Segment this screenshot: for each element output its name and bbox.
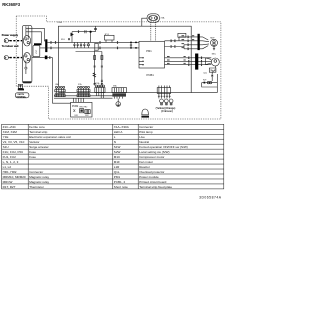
terminal oval upper bbox=[23, 36, 30, 46]
svg-text:Forced operation ON/OFF sw (S/: Forced operation ON/OFF sw (S/W) bbox=[139, 145, 188, 149]
wire into PCB lower bbox=[40, 47, 59, 49]
capacitor C3 bbox=[77, 42, 79, 47]
terminal 2 bbox=[27, 58, 29, 60]
power supply plug bbox=[4, 39, 8, 43]
svg-text:Electronic expansion valve coi: Electronic expansion valve coil bbox=[29, 135, 71, 139]
svg-text:Terminal strip fixed plate: Terminal strip fixed plate bbox=[139, 185, 172, 189]
svg-text:F1U: F1U bbox=[61, 39, 65, 41]
earth bell symbol bbox=[142, 109, 149, 115]
fan wire connector arcs bbox=[171, 40, 176, 48]
solenoid wire ticks bbox=[158, 95, 171, 97]
fuse F1U black body bbox=[34, 43, 42, 45]
connector pair below Q1L bbox=[211, 72, 213, 81]
PM1 power module bbox=[139, 41, 165, 68]
svg-text:HR1, HR2: HR1, HR2 bbox=[3, 170, 17, 174]
tick on right feed bbox=[101, 80, 103, 81]
fan wire tag smudges bbox=[182, 35, 195, 48]
bottom bus wire bbox=[58, 87, 217, 93]
service connector oval on casing top bbox=[147, 14, 165, 22]
varistor V2 bbox=[87, 42, 89, 47]
svg-text:Q1L: Q1L bbox=[203, 72, 208, 74]
svg-text:Local setting sw (S/W): Local setting sw (S/W) bbox=[139, 150, 169, 154]
earth symbol under X8A bbox=[117, 99, 119, 102]
expansion valve coil b bbox=[164, 99, 168, 103]
svg-text:R1T, R2T: R1T, R2T bbox=[3, 185, 16, 189]
capacitor to top edge bbox=[94, 28, 97, 29]
svg-text:TERMINAL: TERMINAL bbox=[16, 95, 27, 98]
PCB2 box bbox=[71, 102, 92, 117]
terminal strip label box bbox=[23, 81, 31, 83]
svg-text:MRCW: MRCW bbox=[3, 180, 13, 184]
connector pair arcs lower bbox=[51, 47, 52, 49]
svg-text:Terminal strip: Terminal strip bbox=[29, 130, 47, 134]
compressor wires bbox=[165, 58, 212, 65]
svg-text:MRM10, MRM20: MRM10, MRM20 bbox=[3, 175, 26, 179]
capacitor C6 bbox=[83, 42, 85, 47]
svg-text:Magnetic relay: Magnetic relay bbox=[29, 175, 49, 179]
terminal L bbox=[25, 38, 27, 40]
svg-text:Fan motor: Fan motor bbox=[139, 160, 153, 164]
earth terminal icon bbox=[18, 84, 22, 88]
relay box fan bbox=[178, 33, 186, 37]
node dot D1 bbox=[90, 31, 92, 33]
svg-text:Surge arrester: Surge arrester bbox=[29, 145, 48, 149]
indoor unit cable bbox=[10, 57, 23, 59]
power supply cable bbox=[10, 40, 23, 42]
connector arcs feed bbox=[94, 83, 103, 84]
top internal wire bbox=[72, 26, 96, 42]
svg-text:PCB2: PCB2 bbox=[72, 105, 79, 108]
svg-text:M1F: M1F bbox=[114, 160, 120, 164]
svg-text:HR1 HR2: HR1 HR2 bbox=[80, 107, 88, 109]
svg-text:Short note: Short note bbox=[114, 185, 128, 189]
solenoid connector Y1E bbox=[157, 86, 171, 94]
svg-text:F1U, F4U, F5U: F1U, F4U, F5U bbox=[3, 150, 24, 154]
svg-text:(Crimson): (Crimson) bbox=[161, 110, 172, 113]
connector X11A bbox=[95, 85, 105, 98]
comp wire tag smudges bbox=[167, 56, 186, 64]
indoor unit plug bbox=[4, 56, 8, 60]
terminal oval lower bbox=[23, 53, 30, 63]
svg-text:X11A: X11A bbox=[95, 82, 100, 85]
earth note box bbox=[15, 93, 29, 98]
svg-text:Varistor: Varistor bbox=[29, 140, 39, 144]
svg-text:M1C: M1C bbox=[114, 155, 121, 159]
outdoor unit casing dashed outline bbox=[16, 16, 221, 119]
capacitor C4 bbox=[80, 42, 82, 47]
svg-text:Connector: Connector bbox=[29, 170, 43, 174]
switch S1W bbox=[73, 109, 75, 112]
svg-text:M1C: M1C bbox=[212, 53, 217, 55]
fan motor M1F bbox=[203, 37, 218, 50]
svg-text:Connector: Connector bbox=[139, 125, 153, 129]
fuse F3U bbox=[101, 56, 103, 60]
connector arcs rail bbox=[100, 41, 119, 49]
terminal strip top stubs bbox=[25, 26, 28, 74]
switch S3W bbox=[85, 110, 90, 114]
lower wire a bbox=[54, 95, 113, 97]
service connector wires bbox=[151, 22, 156, 41]
fan wire arcs at edge bbox=[188, 36, 189, 50]
relay RY1 bbox=[105, 35, 115, 40]
svg-text:Live: Live bbox=[139, 135, 145, 139]
PM1 left edge pins bbox=[139, 58, 142, 65]
fan motor wires bbox=[165, 37, 203, 49]
svg-text:DR2: DR2 bbox=[85, 115, 89, 117]
main rail upper bbox=[58, 41, 139, 43]
diode D1 bbox=[71, 33, 73, 36]
svg-text:S2W: S2W bbox=[114, 150, 121, 154]
svg-text:Power module: Power module bbox=[139, 175, 159, 179]
terminal N bbox=[27, 41, 29, 43]
connector arcs signal bbox=[49, 56, 50, 58]
third rail wire bbox=[76, 51, 102, 53]
svg-text:X7A: X7A bbox=[78, 83, 82, 86]
svg-text:L1, L2: L1, L2 bbox=[3, 165, 12, 169]
ferrite core Z5C bbox=[195, 54, 198, 70]
svg-text:Neutral: Neutral bbox=[139, 140, 149, 144]
capacitor C2 bbox=[73, 42, 75, 47]
svg-text:N: N bbox=[114, 140, 116, 144]
svg-text:RK360F3: RK360F3 bbox=[2, 2, 21, 7]
connector arcs top wire bbox=[78, 31, 79, 33]
svg-text:LED A: LED A bbox=[114, 130, 124, 134]
svg-text:Q1L: Q1L bbox=[114, 170, 120, 174]
ferrite core Z1C bbox=[45, 39, 47, 52]
svg-text:X6A: X6A bbox=[55, 83, 59, 86]
svg-text:R2T: R2T bbox=[203, 80, 207, 82]
svg-text:PM1: PM1 bbox=[114, 175, 121, 179]
PCB1 board outline bbox=[58, 26, 191, 92]
svg-text:DR1: DR1 bbox=[75, 115, 79, 117]
solenoid wires bbox=[159, 93, 170, 98]
wire N to filter bbox=[26, 32, 41, 44]
expansion valve coil a bbox=[160, 99, 164, 103]
svg-text:Ferrite core: Ferrite core bbox=[29, 125, 45, 129]
earth bell label bbox=[141, 116, 149, 118]
svg-text:PCB1: PCB1 bbox=[147, 73, 155, 77]
signal wire indoor to PCB2 bbox=[32, 58, 71, 104]
svg-text:Reactor: Reactor bbox=[139, 165, 150, 169]
svg-text:V2, V3, V5, V10: V2, V3, V5, V10 bbox=[3, 140, 25, 144]
connector X8A bbox=[112, 88, 127, 99]
svg-text:FU1, FU2: FU1, FU2 bbox=[3, 155, 17, 159]
capacitor C1 bbox=[85, 30, 86, 33]
resistor R10 bbox=[93, 73, 96, 77]
discharge thermistor R2T bbox=[202, 80, 218, 84]
wire into PCB upper bbox=[47, 41, 58, 43]
parts table bbox=[2, 124, 224, 189]
ferrite core Z2C bbox=[45, 56, 48, 60]
svg-text:L1R: L1R bbox=[114, 165, 120, 169]
svg-text:L: L bbox=[114, 135, 116, 139]
svg-text:M1F: M1F bbox=[210, 38, 215, 40]
svg-text:Printed circuit board: Printed circuit board bbox=[139, 180, 166, 184]
node dots rails bbox=[130, 42, 132, 44]
main rail lower bbox=[58, 47, 139, 49]
terminal strip X1M bbox=[22, 25, 32, 83]
compressor terminal fan-in bbox=[206, 58, 212, 65]
relay coil K1 bbox=[95, 43, 98, 50]
connector X6A pins bbox=[55, 86, 65, 96]
svg-text:Pilot lamp: Pilot lamp bbox=[139, 130, 153, 134]
fuse F2U bbox=[94, 56, 96, 60]
svg-text:X8A: X8A bbox=[113, 85, 117, 88]
svg-text:PCB1, 2: PCB1, 2 bbox=[114, 180, 126, 184]
compressor terminal box bbox=[202, 74, 218, 87]
expansion valve coil c bbox=[169, 99, 173, 103]
connector X7A pins bbox=[77, 86, 90, 96]
svg-text:3D065874A: 3D065874A bbox=[199, 196, 222, 200]
svg-text:Overload protector: Overload protector bbox=[139, 170, 164, 174]
terminal 1 bbox=[25, 55, 27, 57]
svg-text:Magnetic relay: Magnetic relay bbox=[29, 180, 49, 184]
svg-text:Thermistor: Thermistor bbox=[29, 185, 44, 189]
svg-text:Y1E: Y1E bbox=[3, 135, 9, 139]
filter box bbox=[33, 45, 40, 56]
svg-text:X1M: X1M bbox=[57, 22, 62, 24]
overload protector Q1L bbox=[203, 66, 216, 74]
svg-text:Z1C: Z1C bbox=[36, 49, 38, 53]
svg-text:PM1: PM1 bbox=[146, 49, 152, 53]
comp wire connector arcs bbox=[188, 57, 189, 66]
feed wires to X11A bbox=[95, 50, 102, 85]
svg-text:S1U: S1U bbox=[3, 145, 9, 149]
svg-text:X1M, X2M: X1M, X2M bbox=[3, 130, 18, 134]
svg-text:Compressor motor: Compressor motor bbox=[139, 155, 164, 159]
lower wire b bbox=[54, 97, 113, 99]
connector pair arcs upper bbox=[51, 41, 57, 43]
svg-text:S1W: S1W bbox=[114, 145, 121, 149]
capacitor C5 bbox=[130, 42, 132, 47]
svg-text:Fuse: Fuse bbox=[29, 155, 36, 159]
capacitor ticks feed bbox=[94, 66, 104, 67]
ferrite core Z4C bbox=[198, 34, 200, 50]
svg-text:L, N, 1, 2, 3: L, N, 1, 2, 3 bbox=[3, 160, 19, 164]
wire L to PCB bbox=[26, 28, 45, 41]
PCB2 top pins bbox=[74, 98, 84, 102]
svg-text:Z1C~Z4C: Z1C~Z4C bbox=[3, 125, 17, 129]
compressor motor M1C bbox=[211, 53, 219, 66]
switch S2W bbox=[80, 109, 84, 113]
svg-text:X5A: X5A bbox=[161, 17, 165, 20]
svg-text:X1A~X30A: X1A~X30A bbox=[114, 125, 130, 129]
svg-text:Power supply: Power supply bbox=[2, 34, 19, 37]
svg-text:To indoor unit: To indoor unit bbox=[2, 45, 19, 48]
svg-text:Fuse: Fuse bbox=[29, 150, 36, 154]
